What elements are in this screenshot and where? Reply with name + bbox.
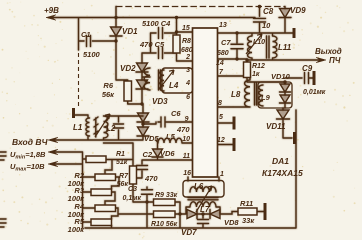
svg-text:L8: L8: [231, 90, 241, 99]
svg-text:470 C5: 470 C5: [139, 40, 165, 49]
svg-text:Вход ВЧ: Вход ВЧ: [12, 137, 48, 147]
svg-text:L6: L6: [194, 182, 204, 191]
svg-text:Umin=1,8В: Umin=1,8В: [10, 150, 46, 161]
svg-text:VD9: VD9: [290, 6, 306, 15]
svg-text:33к: 33к: [242, 216, 255, 225]
svg-text:L9: L9: [261, 93, 271, 102]
svg-text:L2: L2: [106, 124, 116, 133]
svg-text:VD1: VD1: [122, 27, 138, 36]
svg-text:10: 10: [262, 21, 271, 30]
svg-text:R1: R1: [116, 151, 125, 158]
svg-text:L10: L10: [253, 39, 265, 46]
svg-text:10: 10: [182, 136, 190, 143]
svg-text:51к: 51к: [116, 159, 128, 166]
svg-text:9: 9: [185, 116, 189, 123]
svg-text:16: 16: [183, 170, 191, 177]
svg-text:L11: L11: [278, 43, 292, 52]
svg-text:VD7: VD7: [181, 228, 197, 237]
svg-text:Выход: Выход: [315, 47, 342, 56]
svg-text:12: 12: [217, 137, 225, 144]
svg-text:470: 470: [144, 174, 158, 183]
svg-text:C2: C2: [143, 150, 153, 159]
svg-text:R7: R7: [119, 173, 129, 180]
svg-text:5: 5: [219, 114, 223, 121]
svg-text:L5: L5: [166, 132, 176, 141]
svg-text:470: 470: [176, 125, 190, 134]
svg-text:R8: R8: [182, 38, 191, 45]
svg-text:3: 3: [186, 67, 190, 74]
svg-text:R11: R11: [240, 199, 253, 208]
svg-text:R9 33к: R9 33к: [155, 192, 178, 199]
svg-text:VD6: VD6: [160, 149, 175, 158]
svg-text:C1: C1: [81, 30, 91, 39]
svg-text:L4: L4: [169, 81, 179, 90]
svg-text:R12: R12: [252, 63, 265, 70]
svg-text:VD3: VD3: [152, 97, 168, 106]
svg-text:5100: 5100: [83, 50, 101, 59]
svg-text:R6: R6: [103, 81, 113, 90]
svg-text:14: 14: [216, 60, 224, 67]
svg-text:680: 680: [217, 50, 229, 57]
svg-text:C9: C9: [302, 64, 313, 73]
svg-text:5100 C4: 5100 C4: [142, 19, 171, 28]
svg-text:DA1: DA1: [272, 156, 289, 166]
svg-text:0,01мк: 0,01мк: [303, 89, 326, 96]
svg-text:1к: 1к: [252, 71, 260, 78]
svg-text:C3: C3: [128, 186, 137, 193]
svg-text:VD5: VD5: [144, 134, 159, 143]
svg-text:100к: 100к: [68, 225, 86, 234]
svg-text:8: 8: [218, 100, 222, 107]
svg-text:C7: C7: [221, 38, 231, 47]
svg-text:VD8: VD8: [224, 218, 239, 227]
svg-text:0,1мк: 0,1мк: [123, 195, 142, 202]
svg-text:R10 56к: R10 56к: [151, 221, 178, 228]
svg-text:C6: C6: [171, 109, 181, 118]
svg-text:К174ХА15: К174ХА15: [262, 168, 303, 178]
svg-text:11: 11: [183, 153, 190, 160]
svg-text:L7: L7: [200, 205, 210, 214]
svg-text:13: 13: [219, 22, 227, 29]
svg-text:Umax=10В: Umax=10В: [10, 162, 45, 173]
svg-text:4: 4: [185, 80, 190, 87]
svg-text:L1: L1: [73, 123, 83, 132]
svg-text:VD10: VD10: [271, 72, 291, 81]
svg-text:C8: C8: [263, 7, 274, 16]
svg-text:6: 6: [186, 94, 190, 101]
svg-text:15: 15: [182, 25, 190, 32]
svg-text:VD11: VD11: [266, 122, 286, 131]
svg-text:VD2: VD2: [120, 64, 136, 73]
svg-text:56к: 56к: [102, 90, 115, 99]
svg-text:1: 1: [220, 171, 224, 178]
svg-text:2: 2: [185, 54, 190, 61]
svg-text:ПЧ: ПЧ: [329, 56, 341, 65]
svg-text:56к: 56к: [117, 181, 129, 188]
svg-text:+9В: +9В: [44, 6, 59, 15]
svg-text:680: 680: [181, 47, 193, 54]
